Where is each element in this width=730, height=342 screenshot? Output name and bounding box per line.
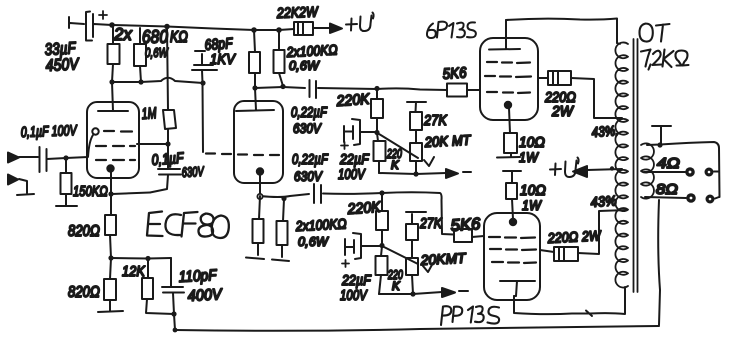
tube 6P13S upper cathode — [505, 102, 511, 108]
capacitor 0,1uF 630V — [150, 144, 181, 193]
transformer primary winding — [615, 42, 628, 287]
resistor 27K lower — [406, 212, 426, 258]
svg-text:110pF: 110pF — [178, 267, 218, 286]
terminal 8R b — [706, 195, 715, 204]
capacitor 0,22uF 630V lower — [314, 184, 382, 203]
node plate junction — [165, 141, 170, 146]
svg-text:220: 220 — [386, 147, 402, 161]
tube V2 cathode — [257, 168, 263, 174]
tube 6P13S lower plate — [500, 281, 535, 296]
svg-text:22µF: 22µF — [339, 152, 370, 168]
svg-text:20KMT: 20KMT — [419, 250, 467, 268]
tube V2 grid dashes — [206, 154, 279, 156]
svg-text:820Ω: 820Ω — [68, 284, 100, 301]
svg-text:220: 220 — [387, 268, 403, 282]
wire top rail — [112, 25, 294, 30]
svg-text:820Ω: 820Ω — [68, 223, 100, 240]
label 6P13S — [427, 22, 476, 38]
label +U top — [346, 13, 374, 32]
tube V1 ECF80 pentode envelope — [87, 102, 139, 178]
svg-text:2W: 2W — [551, 104, 574, 120]
wire input top — [19, 156, 38, 158]
resistor 820 no2 — [98, 258, 123, 312]
resistor 220K lower fixed — [381, 193, 383, 245]
tube 6P13S lower dashes — [489, 237, 536, 263]
resistor 680K no1 — [112, 26, 113, 82]
resistor 820 no1 — [110, 194, 111, 258]
wire +U center tap — [587, 169, 622, 170]
svg-text:0,6W: 0,6W — [289, 58, 320, 73]
svg-text:0,6W: 0,6W — [145, 45, 169, 60]
tube V1 grid terminal — [92, 128, 98, 134]
tube 6P13S lower envelope — [484, 213, 540, 300]
wire to 12K and 110pF — [111, 257, 171, 260]
svg-text:K: K — [391, 160, 400, 172]
svg-text:0,1µF: 0,1µF — [151, 150, 185, 169]
node top rail — [109, 22, 115, 28]
resistor 220K upper fixed — [376, 89, 378, 132]
wire grid upper to 5K6 — [377, 88, 447, 90]
terminal 4R a — [685, 167, 695, 177]
arrow feedback upper — [446, 169, 458, 178]
svg-text:20K MT: 20K MT — [423, 132, 472, 150]
tube V2 plate — [236, 88, 274, 111]
resistor 100K upper no2 — [279, 30, 283, 86]
svg-text:630V: 630V — [294, 168, 323, 184]
svg-text:220K: 220K — [346, 199, 382, 218]
wire bias bottom upper — [379, 173, 446, 174]
transformer core — [634, 39, 638, 292]
svg-text:0,1µF 100V: 0,1µF 100V — [21, 123, 78, 141]
resistor 12K — [146, 259, 174, 314]
capacitor 0,22uF 630V upper — [310, 80, 378, 98]
secondary top ground mark — [652, 126, 671, 144]
svg-text:100V: 100V — [338, 167, 366, 183]
label +U center — [550, 158, 579, 178]
node V2 plate — [252, 85, 257, 90]
svg-text:K: K — [392, 281, 401, 293]
svg-text:8Ω: 8Ω — [656, 181, 678, 198]
svg-text:1W: 1W — [522, 197, 542, 213]
tube 6P13S upper plate — [489, 20, 520, 50]
tube V1 plate — [98, 82, 128, 111]
wire down to rail — [174, 314, 175, 330]
svg-text:5K6: 5K6 — [450, 215, 482, 235]
svg-text:2x: 2x — [113, 24, 133, 44]
svg-text:100V: 100V — [340, 288, 368, 304]
svg-text:0,6W: 0,6W — [298, 234, 329, 249]
resistor 100K lower no1 — [246, 196, 264, 259]
resistor 10R 1W upper — [504, 133, 517, 153]
wire screen to tap lower — [578, 210, 627, 254]
resistor 5K6 upper — [447, 84, 467, 97]
wire screen upper — [538, 77, 548, 79]
potentiometer 220K upper — [377, 133, 379, 173]
wiper lower — [384, 247, 433, 272]
resistor 220R 2W lower — [554, 247, 578, 261]
label + of 33uF — [99, 11, 107, 19]
node bias upper — [374, 130, 379, 135]
capacitor 22uF 100V lower — [345, 233, 382, 259]
arrow feedback lower — [442, 288, 455, 297]
terminal 4R b — [705, 168, 714, 177]
resistor 220R 2W upper — [548, 71, 571, 85]
wire screen lower — [540, 250, 554, 252]
svg-text:220K: 220K — [335, 91, 371, 110]
ground bar upper of lower tube — [503, 171, 521, 183]
svg-text:0,22µF: 0,22µF — [292, 152, 329, 168]
svg-text:1KV: 1KV — [210, 51, 237, 68]
wire grid lower to 5K6 — [382, 192, 454, 234]
svg-text:4Ω: 4Ω — [657, 155, 680, 172]
capacitor 33uF 450V electrolytic — [69, 12, 112, 41]
resistor 5K6 lower — [454, 229, 472, 242]
resistor 100K lower no2 — [272, 199, 289, 261]
capacitor 110pF 400V — [162, 258, 184, 314]
tube 6P13S upper envelope — [480, 38, 538, 120]
svg-text:630V: 630V — [181, 164, 205, 180]
capacitor 0,1uF 100V input — [40, 147, 67, 172]
node bottom left — [171, 311, 176, 316]
wire input to grid — [66, 135, 93, 158]
svg-text:680: 680 — [142, 26, 168, 47]
wire 8R — [645, 197, 719, 199]
resistor 27K upper — [407, 102, 426, 143]
svg-text:150KΩ: 150KΩ — [73, 184, 108, 200]
tube V1 cathode — [107, 165, 113, 171]
wire screen to tap upper — [571, 78, 622, 118]
capacitor 22uF 100V upper — [344, 119, 377, 145]
resistor 22K 2W — [294, 22, 313, 35]
svg-text:220Ω 2W: 220Ω 2W — [546, 227, 602, 246]
wire plate to OT top — [506, 19, 617, 44]
svg-text:27K: 27K — [423, 113, 448, 129]
svg-text:5K6: 5K6 — [442, 64, 468, 83]
trimmer 20K MT upper — [415, 161, 417, 174]
resistor 680K no2 — [140, 28, 141, 82]
label OT 7,2K — [640, 24, 670, 42]
svg-text:450V: 450V — [45, 55, 80, 75]
wire J2 to ground — [17, 179, 34, 195]
input arrow J2 — [8, 175, 18, 185]
svg-text:22µF: 22µF — [341, 273, 372, 289]
node grid wire upper — [374, 86, 379, 91]
node cathode junction — [108, 191, 113, 196]
terminal 8R a — [686, 193, 696, 203]
tube V1 grid dashes — [96, 131, 135, 160]
svg-text:1M: 1M — [141, 105, 157, 123]
node bias lower — [379, 243, 384, 248]
label PP13S — [441, 306, 499, 325]
svg-text:27K: 27K — [419, 216, 443, 232]
transformer secondary winding — [641, 143, 654, 198]
svg-text:400V: 400V — [187, 286, 223, 305]
resistor 100K upper no1 — [254, 30, 255, 88]
wire cathode lower line — [260, 194, 309, 197]
wire 4R tap — [644, 171, 719, 174]
wire to cathode node — [112, 193, 150, 195]
tube 6P13S upper dashes — [485, 62, 531, 93]
label ECF80 — [147, 212, 229, 239]
wire plate lower to OT bottom — [514, 287, 625, 316]
secondary top wire — [647, 142, 720, 197]
wire rail 82 — [112, 78, 203, 83]
node top rail dots — [251, 27, 257, 33]
trimmer 20K MT lower — [406, 258, 418, 275]
node grid wire lower — [379, 190, 384, 195]
svg-text:1W: 1W — [519, 149, 539, 165]
wire +U top — [313, 27, 330, 29]
node 820 junction — [108, 255, 113, 260]
svg-text:43%: 43% — [590, 192, 617, 210]
svg-text:630V: 630V — [293, 120, 322, 136]
tube V2 triode envelope — [234, 101, 283, 183]
svg-text:22K2W: 22K2W — [276, 5, 319, 22]
secondary return wire — [658, 200, 660, 325]
resistor 1M — [167, 26, 168, 144]
wire bias bottom lower — [379, 292, 442, 294]
input arrow J1 — [8, 153, 19, 163]
capacitor 68pF 1KV — [192, 51, 217, 152]
svg-text:12K: 12K — [122, 263, 146, 280]
wire tube V1 to node — [137, 143, 168, 145]
wiper upper — [379, 134, 434, 166]
svg-text:0,22µF: 0,22µF — [291, 105, 328, 121]
resistor 150K — [56, 159, 77, 206]
tube 6P13S lower cathode — [510, 219, 516, 225]
wire bottom rail — [175, 326, 659, 331]
svg-text:KΩ: KΩ — [170, 29, 188, 46]
node input junction — [63, 155, 68, 160]
svg-text:2x100KΩ: 2x100KΩ — [294, 215, 347, 234]
wire V2 plate to coupling — [255, 87, 305, 88]
resistor 10R 1W lower — [506, 183, 517, 199]
potentiometer 220K lower — [379, 246, 382, 294]
